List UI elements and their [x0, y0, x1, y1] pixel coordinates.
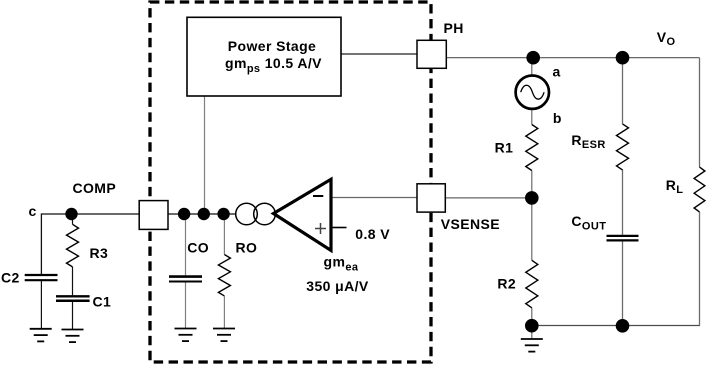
- wire PH node to AC source: [531, 58, 533, 76]
- svg-text:C2: C2: [1, 270, 20, 286]
- wire C1 lower: [72, 301, 74, 330]
- capacitor C2: [1, 270, 58, 286]
- node dot 3: [217, 208, 229, 220]
- svg-text:a: a: [553, 64, 561, 80]
- wire R3 to C1: [72, 267, 74, 295]
- wire COMP box to triangle tip: [168, 213, 236, 215]
- wire power stage bottom drop: [204, 96, 206, 214]
- ground below C1: [62, 330, 84, 343]
- node dot 2: [198, 208, 210, 220]
- wire AC source to R1: [531, 109, 533, 125]
- wire CO lower: [185, 282, 187, 328]
- node COMP junction: [65, 208, 77, 220]
- ground below RO: [213, 329, 235, 342]
- wire R3 branch: [72, 214, 74, 224]
- svg-text:Power Stage: Power Stage: [228, 38, 316, 54]
- node PH-R1 junction: [526, 51, 540, 65]
- svg-text:COMP: COMP: [73, 180, 117, 196]
- wire RO branch: [223, 214, 225, 255]
- resistor RESR: [571, 124, 628, 170]
- wire COUT to bottom rail: [622, 241, 624, 325]
- node R2 bottom junction: [525, 319, 539, 333]
- capacitor C1: [56, 293, 111, 309]
- svg-text:R1: R1: [495, 140, 514, 156]
- ground below C2: [30, 329, 52, 342]
- svg-text:R3: R3: [90, 245, 109, 261]
- node VSENSE junction: [525, 191, 539, 205]
- pin VSENSE: [417, 184, 500, 232]
- resistor RO: [218, 240, 257, 296]
- wire plus input stub 0.8V: [331, 227, 347, 229]
- svg-text:C1: C1: [93, 293, 112, 309]
- svg-text:0.8 V: 0.8 V: [355, 226, 390, 242]
- capacitor COUT: [571, 213, 638, 240]
- svg-text:b: b: [553, 110, 562, 126]
- wire right rail lower: [699, 212, 701, 326]
- svg-text:c: c: [29, 203, 37, 219]
- IC boundary dashed box: [150, 2, 431, 362]
- wire PH to Vo top rail: [446, 57, 700, 59]
- node dot 1: [178, 208, 190, 220]
- wire VSENSE node to R2: [531, 198, 533, 260]
- wire power stage to PH: [341, 53, 420, 55]
- wire Vo node to RESR: [622, 58, 624, 124]
- svg-text:RO: RO: [236, 240, 258, 256]
- wire C2 lower: [40, 281, 42, 330]
- capacitor CO: [169, 240, 209, 282]
- resistor R1: [495, 125, 538, 171]
- resistor R3: [67, 224, 109, 267]
- wire RESR to COUT: [622, 170, 624, 235]
- resistor RL: [666, 167, 705, 212]
- Power Stage block: [187, 17, 341, 96]
- wire bottom rail: [532, 325, 700, 327]
- wire VSENSE to R1 node: [445, 197, 532, 199]
- pin COMP: [73, 180, 169, 230]
- node Vo junction: [616, 51, 630, 65]
- node COUT bottom junction: [616, 319, 630, 333]
- wire R2 to bottom node: [531, 308, 533, 339]
- svg-text:R2: R2: [497, 276, 516, 292]
- svg-text:350 μA/V: 350 μA/V: [306, 278, 369, 294]
- wire c to COMP rail: [41, 214, 139, 275]
- AC source perturbation: [516, 64, 562, 126]
- svg-text:VSENSE: VSENSE: [441, 216, 500, 232]
- pin PH: [417, 20, 464, 68]
- svg-text:CO: CO: [187, 240, 209, 256]
- wire CO branch: [185, 214, 187, 275]
- op-amp U1 error amplifier: [274, 179, 332, 250]
- svg-text:PH: PH: [444, 20, 464, 36]
- wire RO lower: [223, 296, 225, 329]
- resistor R2: [497, 260, 537, 308]
- ground below R2: [521, 339, 543, 352]
- ground below CO: [175, 329, 197, 342]
- gm output double circle: [236, 203, 276, 225]
- wire right rail upper: [699, 58, 701, 167]
- wire R1 to VSENSE node: [531, 171, 533, 198]
- wire minus input to VSENSE: [331, 197, 420, 199]
